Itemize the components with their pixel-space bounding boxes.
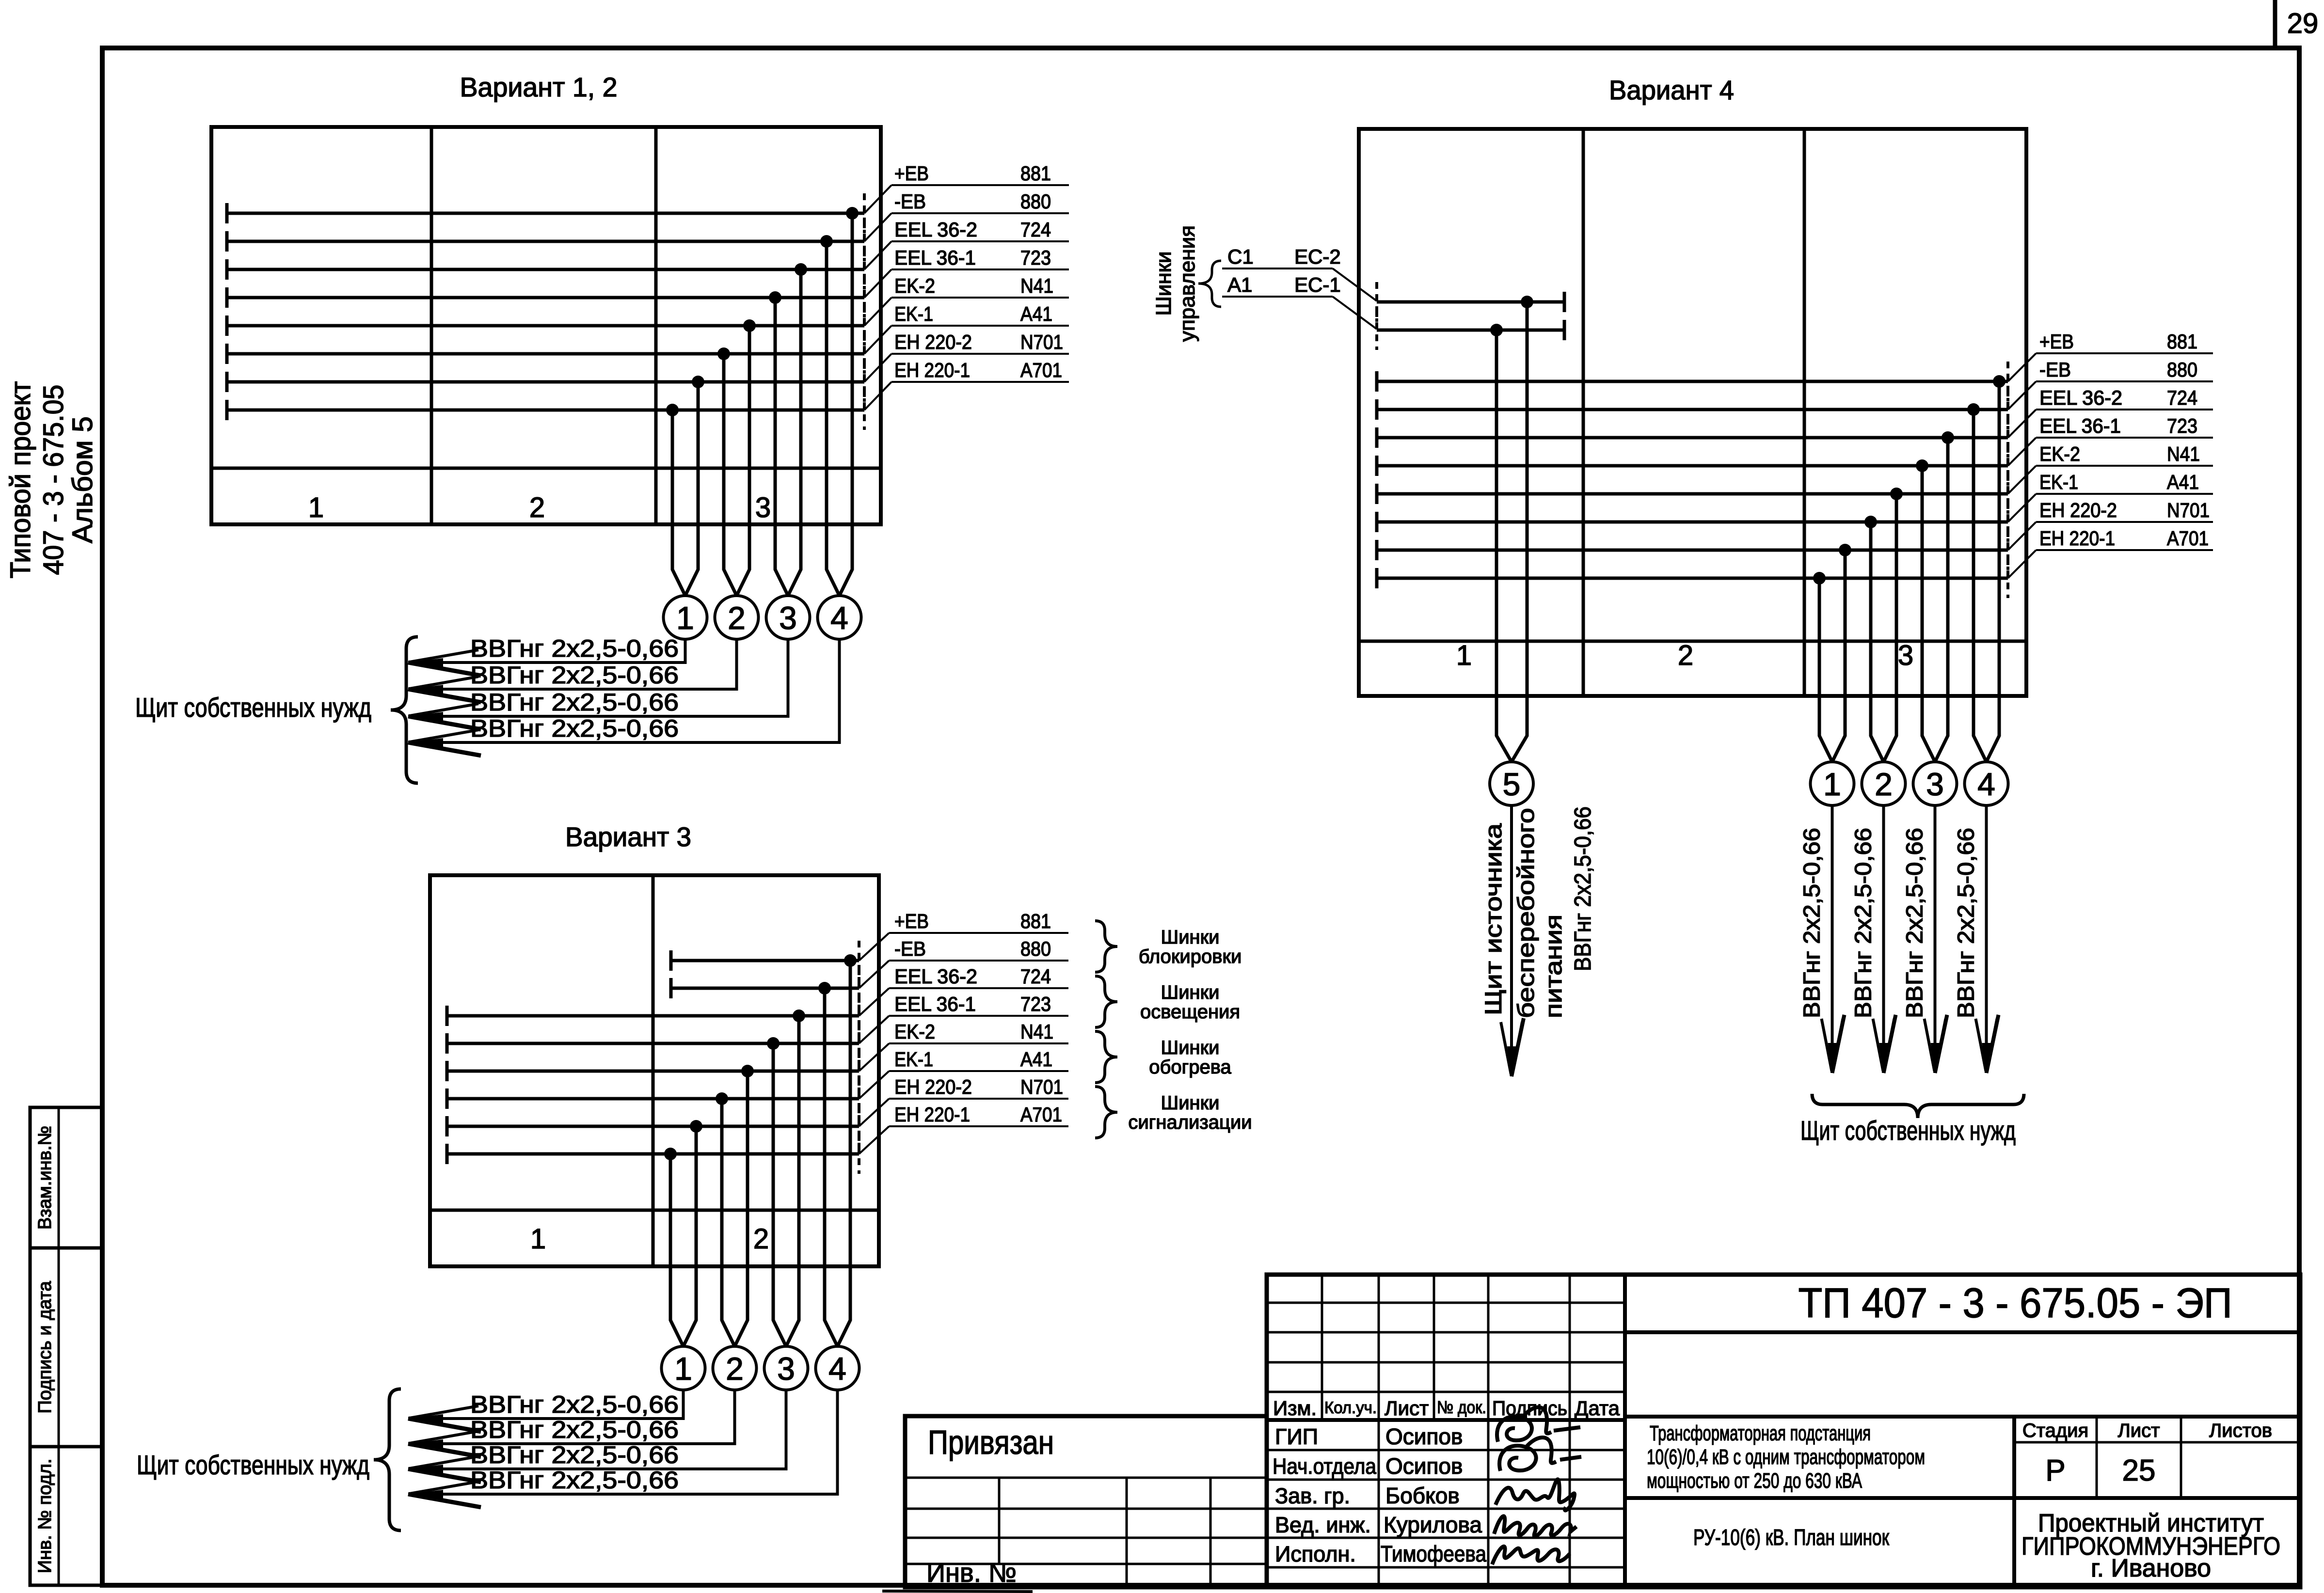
cabinet outline variant 1,2	[211, 127, 881, 524]
annex row line 2	[905, 1537, 1267, 1539]
svg-text:ВВГнг 2х2,5-0,66: ВВГнг 2х2,5-0,66	[1799, 828, 1825, 1018]
bus EEL 36-1 (723) variant 3	[447, 1042, 859, 1045]
svg-text:Р: Р	[2045, 1454, 2065, 1487]
cable wire 4 to panel variant 3	[408, 1390, 838, 1494]
svg-text:Шинки: Шинки	[1161, 982, 1220, 1003]
tap junction dot on control bus EC-1	[1490, 324, 1503, 336]
line under project name row	[1625, 1496, 2300, 1500]
svg-text:№ док.: № док.	[1437, 1397, 1486, 1417]
cable marker circle 3 variant 4	[1913, 762, 1957, 805]
feeder arrowhead circle 4 variant 4	[1982, 1043, 1991, 1073]
cable marker circle 3 variant 1,2	[766, 596, 810, 639]
label leader diagonal to bus +EB variant 4	[2008, 353, 2036, 381]
svg-text:-EB: -EB	[894, 937, 926, 960]
svg-text:EK-2: EK-2	[2039, 442, 2080, 465]
bus +EB (881) variant 3	[671, 959, 859, 962]
group brace освещения variant 3	[1095, 976, 1117, 1027]
tap junction dot on bus +EB variant 3	[844, 954, 857, 967]
drop wire from control bus EC-2 to circle 5	[1512, 302, 1527, 762]
right end tick of control bus EC-2	[1563, 292, 1566, 312]
right dashed tick of bus EEL 36-1 variant 3	[858, 1024, 860, 1063]
label leader line EK-1 variant 4	[2036, 493, 2213, 495]
svg-text:N701: N701	[1020, 331, 1063, 353]
right dashed tick of bus EK-2 variant 4	[2006, 474, 2009, 514]
label leader line EEL 36-1 variant 4	[2036, 437, 2213, 439]
svg-text:ВВГнг 2х2,5-0,66: ВВГнг 2х2,5-0,66	[1851, 828, 1877, 1018]
label leader line EH 220-2 variant 4	[2036, 521, 2213, 523]
svg-text:Шинки: Шинки	[1161, 927, 1220, 948]
drop wire from bus EH 220-1 to cable circle variant 4	[1819, 578, 1832, 762]
svg-text:Щит источника: Щит источника	[1481, 823, 1507, 1015]
left end tick of bus EEL 36-2 variant 1,2	[225, 259, 229, 280]
drop wire from bus +EB to cable circle variant 4	[1987, 381, 2000, 762]
left end tick of bus +EB variant 3	[669, 950, 673, 971]
drop wire from bus EK-1 to cable circle variant 3	[722, 1099, 735, 1346]
bus EK-1 (A41) variant 3	[447, 1097, 859, 1101]
label leader line EH 220-1 variant 4	[2036, 549, 2213, 551]
label leader diagonal to bus EH 220-2 variant 1,2	[864, 354, 891, 382]
margin box Инв. № подл.	[30, 1447, 102, 1585]
label leader diagonal to bus EEL 36-2 variant 4	[2008, 410, 2036, 438]
svg-text:Осипов: Осипов	[1385, 1453, 1463, 1479]
sheet corner tick above frame	[2273, 0, 2277, 46]
left end tick of bus EEL 36-2 variant 3	[446, 1006, 449, 1026]
left end tick of bus -EB variant 1,2	[225, 231, 229, 252]
svg-text:EK-2: EK-2	[894, 1020, 935, 1043]
svg-text:2: 2	[726, 1351, 744, 1387]
right dashed tick of bus +EB variant 1,2	[863, 193, 866, 233]
svg-text:Стадия: Стадия	[2022, 1420, 2088, 1441]
label leader diagonal to bus EK-2 variant 1,2	[864, 298, 891, 326]
right dashed tick of bus EEL 36-2 variant 3	[858, 996, 860, 1036]
label leader diagonal to bus +EB variant 1,2	[864, 185, 891, 213]
svg-text:ВВГнг 2х2,5-0,66: ВВГнг 2х2,5-0,66	[470, 1441, 679, 1468]
svg-text:4: 4	[830, 600, 848, 636]
svg-text:Вариант 4: Вариант 4	[1609, 75, 1734, 105]
svg-text:EC-1: EC-1	[1294, 273, 1341, 296]
svg-text:A701: A701	[2167, 527, 2209, 550]
svg-text:Шинки: Шинки	[1161, 1037, 1220, 1058]
svg-text:ВВГнг 2х2,5-0,66: ВВГнг 2х2,5-0,66	[470, 662, 679, 689]
svg-text:+EB: +EB	[894, 162, 929, 185]
label leader line EH 220-1 variant 3	[889, 1125, 1068, 1127]
line under Стадия header	[2014, 1441, 2300, 1444]
right dashed tick of bus EEL 36-2 variant 4	[2006, 418, 2009, 457]
cable wire 1 to panel variant 1,2	[408, 639, 685, 662]
svg-text:Листов: Листов	[2209, 1420, 2272, 1441]
svg-text:ГИП: ГИП	[1275, 1424, 1318, 1449]
drop wire from bus EEL 36-2 to cable circle variant 1,2	[788, 269, 801, 596]
cabinet label strip line variant 4	[1359, 640, 2026, 643]
group brace сигнализации variant 3	[1095, 1087, 1117, 1138]
label leader diagonal to control bus EC-2	[1333, 268, 1377, 301]
tap junction dot on bus EEL 36-1 variant 4	[1916, 459, 1928, 472]
svg-text:1: 1	[676, 600, 694, 636]
svg-text:724: 724	[2167, 386, 2197, 409]
feeder wire from circle 3 down variant 4	[1934, 805, 1937, 1073]
annex row line 3	[905, 1563, 1267, 1565]
svg-text:N41: N41	[2167, 442, 2200, 465]
svg-text:EEL 36-2: EEL 36-2	[2039, 386, 2122, 409]
label leader line -EB variant 1,2	[891, 212, 1069, 214]
bus EEL 36-1 (723) variant 4	[1377, 464, 2008, 468]
divider before Стадия column	[2012, 1417, 2016, 1587]
signature scribble ГИП	[1497, 1407, 1580, 1442]
label leader diagonal to bus EH 220-1 variant 4	[2008, 550, 2036, 578]
svg-text:2: 2	[1875, 766, 1893, 802]
svg-text:бесперебойного: бесперебойного	[1513, 808, 1539, 1018]
right dashed tick of bus -EB variant 4	[2006, 390, 2009, 429]
label leader diagonal to bus EEL 36-2 variant 3	[859, 988, 889, 1016]
signature scribble Исполн.	[1492, 1546, 1570, 1564]
svg-text:EH 220-1: EH 220-1	[894, 359, 970, 381]
label leader diagonal to bus EH 220-1 variant 3	[859, 1126, 889, 1154]
left end tick of bus EH 220-1 variant 4	[1375, 568, 1379, 588]
svg-text:г. Иваново: г. Иваново	[2091, 1554, 2211, 1582]
left end tick of bus EEL 36-1 variant 4	[1375, 456, 1379, 476]
left end tick of bus EEL 36-1 variant 3	[446, 1033, 449, 1054]
drop wire from bus EK-1 to cable circle variant 1,2	[724, 354, 737, 596]
tap junction dot on control bus EC-2	[1521, 296, 1533, 308]
label leader line +EB variant 1,2	[891, 184, 1069, 186]
cable marker circle 2 variant 3	[713, 1346, 757, 1390]
annex col line 2	[1126, 1478, 1128, 1587]
right dashed tick of bus EH 220-2 variant 3	[858, 1106, 860, 1146]
tap junction dot on bus EEL 36-1 variant 3	[767, 1037, 780, 1050]
tap junction dot on bus EH 220-1 variant 4	[1813, 572, 1826, 584]
cabinet divider variant 3	[652, 875, 655, 1266]
title block col line Изм|Кол.уч.	[1321, 1275, 1323, 1420]
right dashed tick of bus EK-1 variant 1,2	[863, 334, 866, 374]
bus +EB (881) variant 4	[1377, 380, 2008, 383]
svg-text:Осипов: Осипов	[1385, 1424, 1463, 1449]
svg-text:освещения: освещения	[1140, 1001, 1240, 1023]
drop wire from bus EEL 36-1 to cable circle variant 1,2	[775, 298, 788, 596]
svg-text:Тимофеева: Тимофеева	[1381, 1541, 1486, 1566]
left end tick of bus EH 220-2 variant 3	[446, 1116, 449, 1136]
svg-text:2: 2	[529, 492, 545, 523]
svg-text:Лист: Лист	[1385, 1397, 1429, 1420]
bus +EB (881) variant 1,2	[227, 212, 864, 215]
svg-text:EEL 36-1: EEL 36-1	[2039, 414, 2121, 437]
row line Зав.гр.	[1267, 1508, 1625, 1510]
cabinet divider 1-2 variant 4	[1582, 129, 1585, 696]
drop wire from bus EK-1 to cable circle variant 4	[1871, 522, 1884, 762]
label leader diagonal to bus EK-1 variant 4	[2008, 494, 2036, 522]
cable wire 2 to panel variant 3	[408, 1390, 735, 1444]
drop wire from bus EEL 36-1 to cable circle variant 3	[773, 1043, 786, 1346]
revision row line 4	[1267, 1391, 1625, 1393]
cable arrowhead 3 variant 3	[408, 1465, 443, 1473]
label leader diagonal to bus +EB variant 3	[859, 933, 889, 961]
svg-text:C1: C1	[1227, 245, 1254, 268]
title block col line Кол.уч.|Лист	[1378, 1275, 1380, 1587]
svg-text:2: 2	[753, 1223, 769, 1255]
svg-text:Курилова: Курилова	[1384, 1512, 1482, 1537]
cabinet divider 2-3 variant 4	[1803, 129, 1806, 696]
svg-text:EC-2: EC-2	[1294, 245, 1341, 268]
cable arrowhead 2 variant 3	[408, 1439, 443, 1448]
svg-text:Нач.отдела: Нач.отдела	[1273, 1454, 1377, 1479]
left end tick of bus EK-1 variant 4	[1375, 512, 1379, 532]
svg-text:EEL 36-1: EEL 36-1	[894, 246, 976, 269]
cable arrowhead 1 variant 1,2	[408, 658, 443, 667]
bus EK-2 (N41) variant 1,2	[227, 324, 864, 328]
label leader diagonal to bus EEL 36-1 variant 4	[2008, 438, 2036, 466]
label leader diagonal to bus EH 220-1 variant 1,2	[864, 382, 891, 410]
svg-text:A41: A41	[1020, 1048, 1052, 1071]
label leader diagonal to bus EH 220-2 variant 3	[859, 1099, 889, 1126]
svg-text:N701: N701	[2167, 499, 2210, 521]
label leader diagonal to bus EEL 36-2 variant 1,2	[864, 241, 891, 269]
cable marker circle 1 variant 3	[662, 1346, 705, 1390]
svg-text:обогрева: обогрева	[1149, 1057, 1231, 1078]
drop wire from bus EH 220-2 to cable circle variant 3	[684, 1126, 697, 1346]
svg-text:EH 220-2: EH 220-2	[894, 1075, 972, 1098]
bus EEL 36-2 (724) variant 3	[447, 1014, 859, 1018]
svg-text:Вариант 1, 2: Вариант 1, 2	[460, 72, 618, 102]
svg-text:A41: A41	[2167, 471, 2199, 493]
right end tick of control bus EC-1	[1563, 320, 1566, 340]
label leader line A1 EC-1	[1222, 296, 1333, 298]
svg-text:+EB: +EB	[2039, 330, 2074, 353]
svg-text:ВВГнг 2х2,5-0,66: ВВГнг 2х2,5-0,66	[470, 1416, 679, 1443]
feeder arrowhead circle 2 variant 4	[1879, 1043, 1888, 1073]
cable wire 3 to panel variant 1,2	[408, 639, 788, 716]
drop wire from bus EEL 36-1 to cable circle variant 4	[1922, 466, 1935, 762]
svg-text:Бобков: Бобков	[1385, 1483, 1460, 1508]
tap junction dot on bus EH 220-2 variant 3	[690, 1120, 702, 1133]
svg-text:25: 25	[2122, 1454, 2156, 1487]
right dashed tick of bus EH 220-1 variant 4	[2006, 558, 2009, 598]
cable marker circle 5 variant 4	[1490, 762, 1533, 805]
right dashed tick of bus +EB variant 3	[858, 941, 860, 980]
right dashed tick of bus EH 220-1 variant 3	[858, 1134, 860, 1174]
row line Вед.инж.	[1267, 1537, 1625, 1539]
annex col line 1	[998, 1478, 1001, 1564]
bus -EB (880) variant 4	[1377, 408, 2008, 411]
bus EK-2 (N41) variant 4	[1377, 492, 2008, 496]
svg-text:Типовой проект: Типовой проект	[5, 381, 36, 579]
divider Стадия|Лист	[2096, 1417, 2098, 1498]
cabinet label strip line variant 1,2	[211, 467, 881, 470]
tap junction dot on bus EK-2 variant 4	[1890, 488, 1903, 500]
cable marker circle 3 variant 3	[764, 1346, 808, 1390]
left dashed tick of control bus EC-1	[1375, 310, 1378, 350]
tap junction dot on bus EEL 36-2 variant 3	[793, 1009, 805, 1022]
margin box divider 2	[58, 1248, 60, 1447]
left end tick of bus EK-2 variant 1,2	[225, 315, 229, 336]
cable arrowhead 3 variant 1,2	[408, 712, 443, 721]
left end tick of bus EEL 36-2 variant 4	[1375, 427, 1379, 448]
svg-text:ТП 407 - 3 - 675.05 - ЭП: ТП 407 - 3 - 675.05 - ЭП	[1799, 1280, 2232, 1326]
svg-text:Исполн.: Исполн.	[1275, 1542, 1356, 1566]
svg-text:EEL 36-2: EEL 36-2	[894, 218, 977, 241]
svg-text:-EB: -EB	[894, 190, 926, 213]
drop wire from control bus EC-1 to circle 5	[1496, 330, 1512, 762]
feeder arrowhead circle 3 variant 4	[1931, 1043, 1940, 1073]
line under ТП designation	[1625, 1330, 2300, 1334]
cable marker circle 4 variant 4	[1965, 762, 2008, 805]
cable marker circle 2 variant 1,2	[715, 596, 759, 639]
cabinet label strip line variant 3	[430, 1209, 879, 1212]
tap junction dot on bus -EB variant 3	[818, 982, 831, 994]
left end tick of bus EK-1 variant 3	[446, 1088, 449, 1109]
svg-text:Шинки: Шинки	[1161, 1092, 1220, 1114]
svg-text:3: 3	[1898, 640, 1913, 671]
tap junction dot on bus +EB variant 4	[1993, 375, 2006, 388]
drop wire from bus EK-2 to cable circle variant 1,2	[737, 326, 750, 596]
revision row line 2	[1267, 1331, 1625, 1334]
svg-text:EH 220-1: EH 220-1	[894, 1103, 970, 1126]
svg-text:РУ-10(6) кВ. План шинок: РУ-10(6) кВ. План шинок	[1693, 1525, 1890, 1550]
cable arrowhead 1 variant 3	[408, 1414, 443, 1423]
left end tick of bus -EB variant 4	[1375, 399, 1379, 420]
svg-text:723: 723	[1020, 246, 1051, 269]
margin box divider 1	[58, 1107, 60, 1248]
svg-text:881: 881	[2167, 330, 2197, 353]
svg-text:N41: N41	[1020, 1020, 1053, 1043]
svg-text:ВВГнг 2х2,5-0,66: ВВГнг 2х2,5-0,66	[1570, 806, 1596, 971]
cable wire 4 to panel variant 1,2	[408, 639, 840, 742]
tap junction dot on bus EK-1 variant 1,2	[717, 347, 730, 360]
svg-text:A701: A701	[1020, 359, 1062, 381]
label leader diagonal to bus EK-2 variant 3	[859, 1043, 889, 1071]
tap junction dot on bus EK-1 variant 3	[716, 1092, 728, 1105]
label leader line +EB variant 3	[889, 932, 1068, 934]
label leader line EK-1 variant 1,2	[891, 325, 1069, 327]
tap junction dot on bus EEL 36-2 variant 4	[1942, 431, 1954, 444]
svg-text:EH 220-2: EH 220-2	[2039, 499, 2117, 521]
drop wire from bus +EB to cable circle variant 1,2	[840, 213, 853, 596]
svg-text:723: 723	[1020, 993, 1051, 1015]
svg-text:Изм.: Изм.	[1273, 1397, 1317, 1420]
label leader diagonal to control bus EC-1	[1333, 297, 1377, 329]
header row bottom line	[1267, 1418, 1625, 1422]
label leader diagonal to bus EK-1 variant 3	[859, 1071, 889, 1099]
divider Лист|Листов	[2180, 1417, 2182, 1498]
label leader diagonal to bus -EB variant 3	[859, 961, 889, 988]
svg-text:881: 881	[1020, 910, 1051, 932]
svg-text:880: 880	[1020, 190, 1051, 213]
svg-text:1: 1	[1823, 766, 1841, 802]
margin box Подпись и дата	[30, 1248, 102, 1447]
bus -EB (880) variant 1,2	[227, 240, 864, 243]
bus EEL 36-2 (724) variant 4	[1377, 436, 2008, 440]
left dashed tick of control bus EC-2	[1375, 282, 1378, 322]
svg-text:мощностью от 250 до 630 кВА: мощностью от 250 до 630 кВА	[1647, 1469, 1862, 1493]
tap junction dot on bus EK-2 variant 3	[741, 1065, 754, 1077]
svg-text:A41: A41	[1020, 302, 1052, 325]
drop wire from bus EK-2 to cable circle variant 3	[735, 1071, 748, 1346]
signature scribble Вед.инж.	[1494, 1516, 1576, 1536]
annex block outline (Привязан)	[905, 1416, 1267, 1587]
label leader line EK-2 variant 3	[889, 1042, 1068, 1044]
cabinet outline variant 3	[430, 875, 879, 1266]
left end tick of bus EK-2 variant 4	[1375, 484, 1379, 504]
right dashed tick of bus EK-1 variant 3	[858, 1079, 860, 1119]
svg-text:питания: питания	[1541, 915, 1567, 1018]
label leader line EEL 36-2 variant 4	[2036, 409, 2213, 410]
label leader line EEL 36-2 variant 3	[889, 987, 1068, 989]
label leader line EEL 36-1 variant 1,2	[891, 268, 1069, 270]
cabinet divider 2-3 variant 1,2	[654, 127, 658, 524]
svg-text:4: 4	[828, 1351, 846, 1387]
title block outline	[1267, 1275, 2300, 1587]
tap junction dot on bus EEL 36-2 variant 1,2	[795, 263, 807, 276]
brace Шинки управления	[1198, 261, 1221, 307]
control bus EC-1 (A1) variant 4	[1377, 329, 1564, 332]
svg-text:ВВГнг 2х2,5-0,66: ВВГнг 2х2,5-0,66	[470, 635, 679, 662]
tap junction dot on bus EK-1 variant 4	[1864, 516, 1877, 528]
svg-text:10(6)/0,4 кВ с одним трансформ: 10(6)/0,4 кВ с одним трансформатором	[1647, 1445, 1925, 1469]
label leader line EEL 36-2 variant 1,2	[891, 240, 1069, 242]
bus EH 220-1 (A701) variant 3	[447, 1152, 859, 1156]
svg-text:ВВГнг 2х2,5-0,66: ВВГнг 2х2,5-0,66	[470, 1467, 679, 1494]
bus EEL 36-1 (723) variant 1,2	[227, 296, 864, 300]
title block col line Лист|№док	[1433, 1275, 1435, 1420]
svg-text:2: 2	[728, 600, 746, 636]
drop wire from bus EEL 36-2 to cable circle variant 4	[1935, 438, 1948, 762]
row line Нач.отдела	[1267, 1479, 1625, 1481]
bottom paper-edge artifact line	[882, 1591, 1033, 1592]
tap junction dot on bus EK-2 variant 1,2	[743, 319, 756, 332]
cable arrowhead 4 variant 3	[408, 1490, 443, 1498]
feeder wire from circle 4 down variant 4	[1985, 805, 1988, 1073]
bus EH 220-2 (N701) variant 1,2	[227, 380, 864, 384]
left end tick of bus EEL 36-1 variant 1,2	[225, 287, 229, 308]
cable wire 3 to panel variant 3	[408, 1390, 786, 1469]
label leader line +EB variant 4	[2036, 352, 2213, 354]
svg-text:ВВГнг 2х2,5-0,66: ВВГнг 2х2,5-0,66	[1954, 828, 1979, 1018]
svg-text:880: 880	[1020, 937, 1051, 960]
svg-text:1: 1	[308, 492, 324, 523]
feeder arrowhead circle 5	[1507, 1046, 1516, 1076]
brace grouping cables variant 3	[374, 1389, 401, 1530]
svg-text:Дата: Дата	[1575, 1397, 1620, 1420]
drop wire from bus EH 220-2 to cable circle variant 4	[1832, 550, 1846, 762]
row line ГИП	[1267, 1449, 1625, 1451]
bus EEL 36-2 (724) variant 1,2	[227, 268, 864, 271]
svg-text:5: 5	[1503, 766, 1521, 802]
bus EH 220-1 (A701) variant 1,2	[227, 409, 864, 412]
right dashed tick of bus EEL 36-2 variant 1,2	[863, 250, 866, 289]
svg-text:A1: A1	[1227, 273, 1252, 296]
svg-text:EK-1: EK-1	[2039, 471, 2078, 493]
bus -EB (880) variant 3	[671, 987, 859, 990]
tap junction dot on bus EH 220-1 variant 1,2	[666, 404, 679, 416]
svg-text:сигнализации: сигнализации	[1128, 1112, 1252, 1133]
svg-text:Щит собственных нужд: Щит собственных нужд	[135, 692, 371, 723]
annex col line 3	[1210, 1478, 1212, 1587]
svg-text:881: 881	[1020, 162, 1051, 185]
label leader diagonal to bus EEL 36-1 variant 1,2	[864, 269, 891, 298]
svg-text:EK-1: EK-1	[894, 302, 933, 325]
left end tick of bus -EB variant 3	[669, 978, 673, 998]
drop wire from bus +EB to cable circle variant 3	[838, 961, 851, 1346]
cable arrowhead 2 variant 1,2	[408, 685, 443, 694]
tap junction dot on bus -EB variant 1,2	[820, 235, 833, 248]
right dashed tick of bus EH 220-2 variant 1,2	[863, 362, 866, 402]
right dashed tick of bus +EB variant 4	[2006, 362, 2009, 401]
svg-text:управления: управления	[1176, 225, 1199, 342]
label leader line -EB variant 4	[2036, 380, 2213, 382]
svg-text:Взам.инв.№: Взам.инв.№	[35, 1126, 55, 1230]
right dashed tick of bus EEL 36-1 variant 4	[2006, 446, 2009, 486]
svg-text:ВВГнг 2х2,5-0,66: ВВГнг 2х2,5-0,66	[470, 715, 679, 742]
svg-text:блокировки: блокировки	[1139, 946, 1242, 967]
line above project name row	[1625, 1415, 2300, 1419]
